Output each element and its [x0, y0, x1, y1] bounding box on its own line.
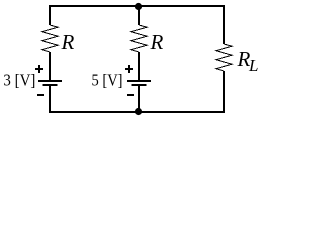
wire top bus (node A): [49, 5, 225, 7]
label + (V1 positive terminal): [35, 65, 43, 73]
svg-text:R: R: [61, 30, 75, 54]
wire left branch top lead: [49, 5, 51, 25]
label - (V2 negative terminal): [127, 94, 134, 96]
wire left branch bottom lead: [49, 86, 51, 113]
label + (V2 positive terminal): [125, 65, 133, 73]
label - (V1 negative terminal): [37, 94, 44, 96]
svg-text:5 [V]: 5 [V]: [92, 71, 123, 90]
svg-text:R: R: [150, 30, 164, 54]
resistor RL (load, right branch): [216, 44, 232, 71]
wire right branch bottom lead: [223, 71, 225, 113]
battery V1 3V short plate (-): [43, 84, 58, 86]
wire right branch top lead: [223, 5, 225, 44]
label RL (load resistor designator): [237, 47, 259, 75]
battery V2 5V long plate (+): [127, 80, 151, 82]
node junction dot bottom (node B): [135, 108, 142, 115]
battery V1 3V long plate (+): [38, 80, 62, 82]
wire middle branch middle lead: [138, 52, 140, 80]
resistor R (left branch): [42, 25, 58, 52]
wire bottom bus (node B): [49, 111, 225, 113]
svg-text:3 [V]: 3 [V]: [3, 71, 35, 90]
node junction dot top (node A): [135, 3, 142, 10]
wire middle branch top lead: [138, 7, 140, 25]
wire middle branch bottom lead: [138, 86, 140, 111]
battery V2 5V short plate (-): [132, 84, 147, 86]
resistor R (middle branch): [131, 25, 147, 52]
svg-text:L: L: [248, 56, 258, 75]
wire left branch middle lead: [49, 52, 51, 80]
